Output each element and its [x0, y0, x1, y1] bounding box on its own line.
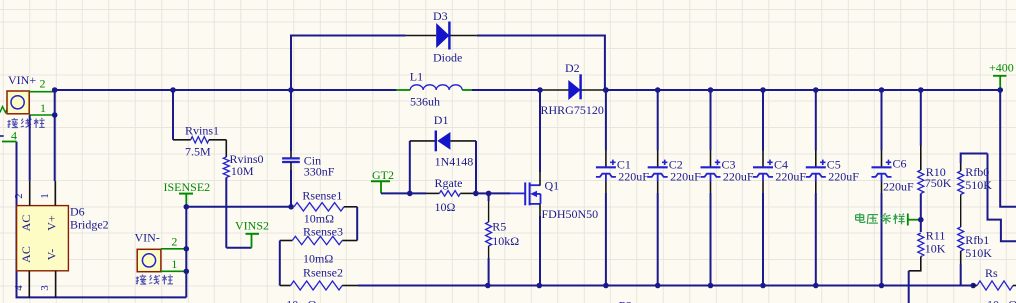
wire VIN+ pin1 to bridge AC [29, 115, 31, 181]
diode D2 [568, 80, 580, 100]
resistor R10 body [918, 170, 924, 194]
svg-text:D3: D3 [433, 9, 448, 23]
junction C5 top [813, 87, 819, 93]
svg-text:10mΩ: 10mΩ [303, 251, 333, 265]
junction VIN+ pin1 [52, 112, 58, 118]
resistor tail off-frame left [0, 107, 7, 113]
connector VIN- (terminal) [137, 249, 161, 271]
svg-text:Rfb0: Rfb0 [965, 165, 989, 179]
junction C1 bottom [603, 283, 609, 289]
junction C3 bottom [708, 283, 714, 289]
Q1 source lead [539, 204, 541, 216]
svg-text:4: 4 [11, 129, 17, 143]
svg-text:536uh: 536uh [410, 94, 440, 108]
capacitor C5 [815, 90, 817, 151]
junction C4 top [760, 87, 766, 93]
label 电压采样 [859, 213, 861, 220]
wire Rvins0 to VINS2 [225, 178, 227, 248]
svg-text:Rsense1: Rsense1 [302, 188, 342, 202]
wire bridge output bottom (pin3 net) [17, 142, 187, 298]
junction C6 bottom [879, 283, 885, 289]
resistor Rgate body [439, 191, 460, 197]
svg-text:D6: D6 [70, 205, 85, 219]
svg-text:220uF: 220uF [618, 169, 649, 183]
svg-text:D2: D2 [565, 61, 580, 75]
wire gate to Q1 [489, 192, 510, 194]
svg-text:1N4148: 1N4148 [435, 154, 474, 168]
VIN+ pin 1 stub [29, 114, 55, 116]
svg-text:VIN+: VIN+ [8, 73, 36, 87]
junction Q1 source bottom [537, 283, 543, 289]
svg-text:AC: AC [19, 215, 33, 232]
wire Rfb1 bottom to bus [960, 264, 962, 286]
svg-text:AC: AC [19, 246, 33, 263]
junction GT2/D1 [407, 191, 413, 197]
diode D1 loop [409, 141, 411, 194]
transistor Q1 (N-MOSFET) [524, 182, 526, 205]
wire D2 cathode pin [581, 89, 606, 91]
resistor Rsense3 [342, 240, 357, 242]
svg-text:220uF: 220uF [723, 169, 754, 183]
svg-text:220uF: 220uF [775, 169, 806, 183]
svg-text:Bridge2: Bridge2 [70, 218, 109, 232]
svg-text:C6: C6 [893, 157, 907, 171]
junction +400/rail [997, 87, 1003, 93]
resistor Rvins0 [223, 157, 229, 178]
wire main +rail segments [55, 89, 397, 91]
junction D2 cathode / C1 / D3 loop [603, 87, 609, 93]
wire Q1 drain to rail [539, 90, 541, 172]
svg-text:7.5M: 7.5M [185, 145, 211, 159]
resistor Rsense1 body [294, 203, 344, 211]
bridge pin 1 lead [54, 181, 56, 206]
Rvins1 right pin [209, 139, 226, 141]
bridge pin 3 lead [55, 271, 57, 298]
diode D1 [437, 132, 450, 150]
svg-text:Rgate: Rgate [435, 176, 463, 190]
svg-text:2: 2 [171, 235, 177, 249]
wire R11 bottom crossing bus [908, 271, 910, 303]
junction C2 bottom [655, 283, 661, 289]
junction C2 top [655, 87, 661, 93]
wire D2 anode pin [540, 89, 569, 91]
capacitor C4 [762, 90, 764, 151]
svg-text:330nF: 330nF [304, 164, 335, 178]
svg-text:D1: D1 [434, 113, 449, 127]
svg-text:VIN-: VIN- [135, 231, 160, 245]
resistor R5 body [486, 222, 492, 246]
svg-text:R11: R11 [926, 229, 946, 243]
connector VIN+ (terminal) [7, 91, 29, 114]
wire D3 top loop [291, 36, 406, 91]
svg-text:ISENSE2: ISENSE2 [164, 180, 211, 194]
svg-text:2: 2 [40, 77, 46, 91]
resistor Rfb0 body [958, 171, 964, 195]
wire Rsense1 to Rsense3 [356, 207, 358, 241]
bridge pin 2 lead [29, 181, 31, 206]
svg-text:3: 3 [39, 285, 51, 291]
bridge pin 4 lead [28, 271, 30, 298]
resistor Rs body [977, 281, 1013, 290]
resistor R10 [920, 90, 922, 146]
wire ISENSE2 to Rsense1 [186, 206, 291, 208]
R11 bottom lead jog [909, 257, 921, 271]
Q1 drain lead [539, 172, 541, 185]
capacitor C1 [605, 90, 607, 151]
junction Rvins1/rail [170, 87, 176, 93]
diode D3 [436, 23, 449, 48]
net port VINS2 [226, 247, 251, 249]
junction ISENSE2 [184, 204, 190, 210]
wire GT2 to gate node [381, 192, 410, 194]
svg-text:1: 1 [39, 193, 51, 199]
svg-text:Rfb1: Rfb1 [965, 233, 989, 247]
svg-text:10mΩ: 10mΩ [286, 298, 316, 303]
resistor Rsense2 [280, 285, 291, 287]
svg-text:4: 4 [13, 285, 25, 291]
VIN- pin 2 stub [161, 248, 186, 250]
junction C4 bottom [760, 283, 766, 289]
svg-text:RHRG75120: RHRG75120 [541, 103, 604, 117]
svg-text:L1: L1 [410, 70, 423, 84]
wire Rfb0 top [961, 154, 988, 164]
resistor Rfb1 body [958, 227, 964, 251]
bridge rectifier D6 body [17, 206, 69, 271]
svg-text:220uF: 220uF [883, 180, 914, 194]
junction R5 bottom [485, 283, 491, 289]
junction VIN- pin1 [184, 269, 190, 275]
svg-text:GT2: GT2 [372, 168, 394, 182]
VIN- pin 1 stub [161, 270, 186, 272]
capacitor C3 [710, 90, 712, 151]
svg-text:V-: V- [45, 249, 59, 261]
resistor Rsense2 body [291, 281, 343, 290]
wire Rsense3/Rsense2 left bracket [279, 241, 281, 286]
resistor R11 [920, 220, 922, 232]
wire Q1 source to bottom bus [539, 216, 541, 286]
junction VIN- pin2 [184, 246, 190, 252]
svg-text:V+: V+ [45, 215, 59, 231]
junction Cin/Rsense1 [288, 204, 294, 210]
svg-text:2: 2 [13, 193, 25, 199]
resistor Rvins1 [191, 137, 209, 143]
junction C5 bottom [813, 283, 819, 289]
junction R5 top [486, 191, 492, 197]
svg-text:10mΩ: 10mΩ [987, 298, 1016, 303]
capacitor C2 [657, 90, 659, 151]
resistor R5 [488, 193, 490, 201]
svg-text:1: 1 [171, 257, 177, 271]
junction C3 top [708, 87, 714, 93]
capacitor C6 [881, 90, 883, 151]
junction Rs left [970, 283, 976, 289]
wire VIN+ pin1 to bridge V+ [54, 92, 56, 181]
bottom bus wire [358, 285, 973, 287]
resistor Rvins1 branch [172, 90, 174, 140]
wire ISENSE2 down to VIN- column [185, 207, 187, 298]
svg-text:10M: 10M [231, 164, 254, 178]
svg-text:1: 1 [40, 101, 46, 115]
junction C6 top [879, 87, 885, 93]
label 接线柱 (VIN+) [8, 120, 10, 128]
svg-text:Rs: Rs [985, 266, 998, 280]
resistor Rgate [410, 192, 426, 194]
junction D1 right [473, 191, 479, 197]
junction C1 top [603, 87, 609, 93]
svg-text:220uF: 220uF [828, 169, 859, 183]
VIN+ pin 2 stub [29, 91, 55, 93]
svg-text:Diode: Diode [433, 51, 462, 65]
resistor Rsense3 body [292, 236, 342, 244]
svg-text:FDH50N50: FDH50N50 [542, 207, 599, 221]
junction VIN+ pin2/rail [52, 87, 58, 93]
svg-text:+400: +400 [989, 61, 1014, 75]
svg-text:10kΩ: 10kΩ [492, 234, 519, 248]
svg-text:10Ω: 10Ω [435, 200, 456, 214]
wire Rfb0-Rfb1 series link [960, 195, 962, 228]
capacitor Cin [290, 90, 292, 151]
wire +400 column down to right edge [1000, 90, 1016, 207]
svg-text:510K: 510K [965, 246, 992, 260]
svg-text:Rvins1: Rvins1 [185, 124, 219, 138]
wire feedback node to right edge [988, 154, 1016, 242]
svg-text:R5: R5 [492, 219, 506, 233]
resistor R11 body [918, 233, 924, 257]
svg-text:VINS2: VINS2 [235, 219, 269, 233]
svg-text:Rsense2: Rsense2 [303, 265, 343, 279]
svg-text:10K: 10K [925, 242, 946, 256]
svg-text:P2: P2 [619, 298, 633, 303]
wire stub from off-frame pin 4 [2, 141, 17, 143]
junction Q1 drain / D2 anode [537, 87, 543, 93]
Rvins1 left pin [173, 139, 191, 141]
svg-text:Rsense3: Rsense3 [303, 224, 343, 238]
junction R10 top/rail [918, 87, 924, 93]
junction R10/R11/sense [918, 217, 924, 223]
svg-text:750K: 750K [925, 176, 952, 190]
label 接线柱 (VIN-) [136, 276, 138, 284]
wire dash off-frame left [0, 135, 4, 137]
resistor Rvins0 branch [225, 140, 227, 157]
inductor L1 [397, 89, 411, 91]
svg-text:Q1: Q1 [545, 178, 560, 192]
junction Cin/D3/rail [288, 87, 294, 93]
svg-text:220uF: 220uF [670, 169, 701, 183]
